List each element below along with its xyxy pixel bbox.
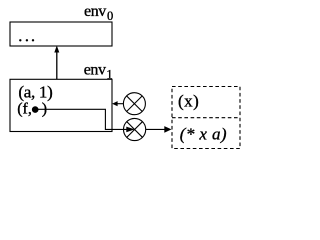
wire: pointer from f dot, right then down then right to closure bbox=[35, 109, 126, 129]
svg-text:env: env bbox=[84, 62, 106, 79]
wire: arrow from top circle to env1 frame bbox=[117, 103, 124, 105]
closure env-pointer circle (top, with X) bbox=[123, 93, 145, 115]
wire: arrow from bottom circle right to code box bbox=[146, 128, 166, 130]
svg-text:(a, 1): (a, 1) bbox=[18, 82, 52, 101]
svg-text:(* x a): (* x a) bbox=[180, 124, 227, 143]
code box (dashed, two compartments) bbox=[172, 87, 240, 149]
frame box env1 bbox=[10, 79, 112, 131]
wire: arrow from env1 frame up to env0 frame bbox=[56, 52, 58, 80]
svg-text:(f,: (f, bbox=[17, 101, 32, 118]
frame box env0 bbox=[10, 22, 112, 46]
svg-text:0: 0 bbox=[107, 9, 113, 23]
ellipsis dots in env0 frame bbox=[19, 39, 21, 41]
closure code-pointer circle (bottom, with X) bbox=[124, 118, 146, 140]
svg-text:(x): (x) bbox=[178, 91, 199, 110]
svg-text:env: env bbox=[84, 3, 106, 20]
